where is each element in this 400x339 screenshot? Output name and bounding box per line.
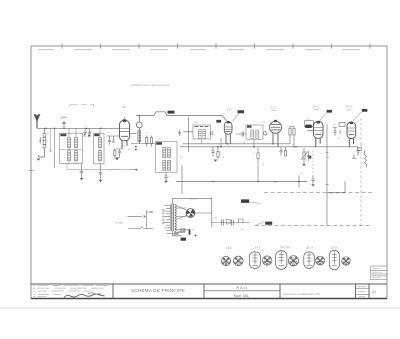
tap selector contact chain bbox=[163, 209, 165, 224]
electrolytic dark mark bbox=[189, 229, 191, 235]
svg-text:6 A 8: 6 A 8 bbox=[226, 247, 232, 250]
V5 top cap bbox=[350, 122, 353, 125]
top border zone labels (gray dashes) bbox=[38, 49, 360, 51]
T2 internal connects bbox=[99, 128, 101, 164]
page bottom edge shadow line bbox=[0, 307, 400, 309]
V4 lead label bbox=[327, 110, 332, 113]
T2 label strip bbox=[94, 134, 99, 136]
scattered small value labels bbox=[47, 119, 364, 232]
svg-text:6 K 7: 6 K 7 bbox=[255, 246, 261, 249]
pot dark cap blob bbox=[308, 156, 311, 159]
T1 label strip bbox=[60, 134, 66, 136]
svg-text:25 L 6: 25 L 6 bbox=[313, 105, 320, 108]
svg-text:R A 21: R A 21 bbox=[236, 286, 247, 290]
svg-text:Avant mise en fabrication (: Avant mise en fabrication (43) bbox=[283, 292, 320, 296]
antenna bbox=[34, 114, 40, 128]
svg-text:6 K 7: 6 K 7 bbox=[227, 109, 233, 112]
mains input wire 1 bbox=[128, 215, 145, 218]
AVC RC cluster 2 bbox=[279, 147, 286, 156]
IF2 winding left bbox=[251, 130, 254, 138]
osc line junction dots bbox=[135, 146, 137, 148]
right edge cluster (tone/speaker) bbox=[352, 147, 367, 168]
ground right bottom bbox=[311, 184, 315, 186]
socket pair 4 base circle bbox=[316, 256, 325, 265]
title block left cell tiny text rows bbox=[33, 285, 108, 297]
title block outline bbox=[31, 284, 387, 299]
T1 winding 2 bbox=[75, 138, 78, 161]
wire junction dots bbox=[45, 128, 102, 130]
revision table above title block bbox=[370, 266, 387, 280]
components below transformer bbox=[166, 231, 186, 236]
sheet border frame bbox=[31, 46, 387, 299]
output transformer box above V5 bbox=[339, 122, 345, 126]
IF1 bottom cap + ground bbox=[164, 173, 168, 181]
trimmer junction dark dot bbox=[88, 135, 90, 137]
AVC RC cluster 1 bbox=[211, 147, 219, 159]
tube socket labels row bbox=[226, 246, 339, 250]
svg-text:25 Z 6: 25 Z 6 bbox=[346, 106, 353, 109]
small dark dot bbox=[195, 235, 197, 237]
transformer top lead bbox=[173, 198, 212, 203]
dot at dropper junction bbox=[257, 181, 259, 183]
coupling cap left of IF1a bbox=[178, 117, 193, 152]
voltage selector vertical bbox=[144, 210, 153, 229]
trimmer caps between T1 and T2 bbox=[83, 128, 91, 137]
svg-text:Type 351: Type 351 bbox=[233, 294, 249, 298]
tube V4 (output) bbox=[307, 122, 323, 147]
svg-text:25 L 6: 25 L 6 bbox=[306, 247, 313, 250]
below-transformer resistors bbox=[175, 229, 189, 233]
T2 winding 1 bbox=[99, 138, 102, 161]
V5 grid cap lead bbox=[353, 112, 362, 121]
dial lamp wire dot bbox=[135, 169, 137, 171]
IF transformer 1 box (between V1 and V2) bbox=[193, 125, 211, 139]
socket pair 4 tube outline bbox=[304, 252, 315, 268]
ground under cluster 1 bbox=[214, 160, 218, 162]
small box on filter rail bbox=[227, 219, 231, 224]
IF1a winding left bbox=[198, 130, 201, 139]
V1 top cap lead bbox=[124, 116, 126, 119]
right bottom cluster with ground bbox=[311, 176, 314, 184]
socket pair 3 base circle bbox=[288, 256, 298, 266]
svg-text:utilisable avec cadre antenne: utilisable avec cadre antenne bbox=[131, 83, 169, 87]
rectifier socket circle bbox=[186, 209, 195, 218]
ground under pot bbox=[302, 164, 306, 166]
vertical cross at volume control bbox=[298, 176, 300, 188]
svg-text:A3: A3 bbox=[372, 290, 376, 294]
mid wire upper bbox=[183, 143, 290, 145]
IF1 label strip bbox=[156, 142, 162, 145]
small box with label 3B7 bbox=[305, 121, 314, 127]
oscillator top-cap circle bbox=[136, 116, 142, 144]
IF transformer 1 box bbox=[156, 142, 178, 173]
T1 winding 1 bbox=[68, 138, 71, 161]
V1 top cap bbox=[123, 119, 127, 122]
dark label left of V2 bbox=[216, 120, 221, 123]
socket pair 1 circle a bbox=[221, 256, 230, 265]
dashed chassis line lower bbox=[255, 225, 372, 227]
resistors right of V3 bbox=[289, 127, 295, 149]
wire junction dot bbox=[139, 115, 141, 117]
power transformer secondary scallops bbox=[175, 205, 176, 232]
dashed diagonal join bbox=[255, 222, 264, 226]
input coil L1 bbox=[39, 128, 46, 157]
dial lamp dashed wire bbox=[109, 169, 136, 171]
diode circle at IF2 output bbox=[264, 132, 268, 136]
cathode value labels bbox=[122, 146, 131, 152]
IF2 winding right bbox=[256, 130, 259, 138]
band filter box T1 bbox=[60, 133, 83, 163]
IF1 winding pair left bbox=[163, 148, 166, 171]
leads to rectifier bbox=[176, 208, 212, 217]
svg-text:6 Q 7: 6 Q 7 bbox=[271, 107, 278, 110]
tube V1 (converter) bbox=[120, 120, 137, 149]
filter cap 1 bbox=[222, 220, 224, 226]
tube V3 (detector/AF) bbox=[270, 121, 282, 147]
dashed chassis line upper bbox=[264, 191, 372, 193]
IF1 winding pair right bbox=[168, 148, 171, 171]
IF2 label strip bbox=[247, 126, 252, 128]
volume potentiometer cluster bbox=[301, 148, 311, 163]
svg-text:6 Q 7 GT: 6 Q 7 GT bbox=[280, 246, 290, 249]
mains input wire 2 with switch bbox=[128, 227, 153, 229]
socket pair 2 tube outline bbox=[249, 252, 260, 268]
caps + grounds below boxes bbox=[80, 163, 103, 179]
filter cap 2 bbox=[232, 220, 234, 226]
V2 top cap bbox=[227, 121, 230, 123]
V2 plate lead label bbox=[238, 110, 245, 113]
ground under T1 cap bbox=[80, 178, 84, 180]
V1 cathode RC network bbox=[114, 140, 122, 157]
trimmer cap above wire bbox=[60, 117, 67, 128]
pot shield dashed vertical bbox=[312, 151, 314, 177]
mid wire lower bbox=[180, 146, 358, 148]
tube V2 (IF amplifier) bbox=[224, 122, 232, 144]
IF1a label dashes on top edge bbox=[195, 126, 209, 128]
left border centering tick bbox=[29, 170, 34, 172]
dark label near dashed line top bbox=[241, 199, 249, 203]
T1 mid line bbox=[60, 149, 83, 151]
svg-text:T.S.: T.S. bbox=[306, 119, 310, 121]
audio wire dots bbox=[212, 181, 300, 183]
vertical from T1 bottom bbox=[66, 163, 68, 169]
IF2 bottom drop bbox=[253, 139, 255, 148]
speaker boundary dashed vertical bbox=[360, 118, 362, 226]
socket pair 5 tube outline bbox=[329, 250, 339, 269]
tube type labels (gray) bbox=[227, 105, 353, 111]
socket pair 3 tube outline bbox=[276, 251, 287, 270]
small marks on filter rail bbox=[239, 219, 244, 223]
svg-text:secteur: secteur bbox=[189, 198, 197, 201]
socket pair 5 base circle bbox=[342, 257, 350, 265]
small scale cell marks bbox=[358, 287, 367, 297]
ground under T2 cap bbox=[99, 180, 103, 182]
small circle at IF1a output bbox=[210, 132, 213, 135]
svg-text:25 Z 6: 25 Z 6 bbox=[331, 246, 338, 249]
short wire right of label bbox=[250, 203, 261, 205]
socket pair 2 base circle bbox=[263, 256, 272, 265]
power transformer primary taps bbox=[164, 205, 171, 232]
IF transformer 2 box bbox=[246, 125, 263, 139]
dropper resistor to audio wire bbox=[257, 147, 259, 182]
dark label 3B0 under transformer bbox=[181, 238, 186, 241]
V3 top cap bbox=[274, 120, 277, 122]
V4 grid cap lead bbox=[320, 113, 327, 121]
svg-text:6 volts: 6 volts bbox=[116, 221, 124, 225]
ground under V1 bbox=[115, 158, 119, 160]
V4 top cap bbox=[317, 121, 320, 124]
svg-text:A: A bbox=[122, 105, 126, 109]
V5 lead label bbox=[362, 109, 368, 112]
output stage vertical line bbox=[326, 124, 346, 226]
wire below boxes bbox=[67, 169, 137, 171]
V2 cathode drop bbox=[220, 138, 222, 147]
tube V5 (rectifier/output right) bbox=[347, 122, 356, 147]
junction dots mid wires bbox=[217, 143, 297, 148]
components right of T2 bbox=[106, 136, 119, 145]
3B7 dark label bbox=[305, 125, 312, 128]
coil group label above boxes bbox=[70, 105, 94, 108]
socket pair 1 circle b bbox=[234, 256, 244, 266]
vertical feed line left of T1 bbox=[54, 128, 56, 168]
leads transformer to rectifier diagonals bbox=[176, 206, 186, 220]
oscillator coil bbox=[138, 131, 141, 142]
title block signature scribble bbox=[64, 294, 105, 297]
svg-text:SCHEMA DE PRINCIPE: SCHEMA DE PRINCIPE bbox=[131, 288, 185, 293]
ground below antenna coil bbox=[37, 159, 41, 161]
vertical drop left of audio wire bbox=[181, 165, 183, 194]
IF2 input stub bbox=[236, 132, 246, 137]
ground under IF1 bbox=[164, 181, 168, 183]
IF1a bottom drop bbox=[201, 139, 203, 144]
coupling parts between V4 and V5 bbox=[333, 128, 340, 136]
wire label 1G8 bbox=[168, 111, 175, 114]
V2 plate lead bbox=[233, 114, 239, 122]
lower audio wire bbox=[176, 181, 307, 183]
power transformer core bbox=[172, 204, 174, 232]
oscillator grid wire with bump bbox=[136, 112, 227, 121]
secondary tap line bbox=[49, 128, 51, 151]
HT filter rail bbox=[212, 198, 250, 227]
T1 internal connects bbox=[69, 128, 76, 163]
oscillator section resistors bbox=[131, 136, 155, 147]
IF1a winding right bbox=[203, 130, 206, 139]
band filter box T2 bbox=[94, 133, 104, 164]
dark label near dashed line bottom bbox=[265, 222, 272, 225]
antenna input wire bbox=[37, 127, 120, 129]
top border zone tick marks bbox=[62, 44, 370, 49]
